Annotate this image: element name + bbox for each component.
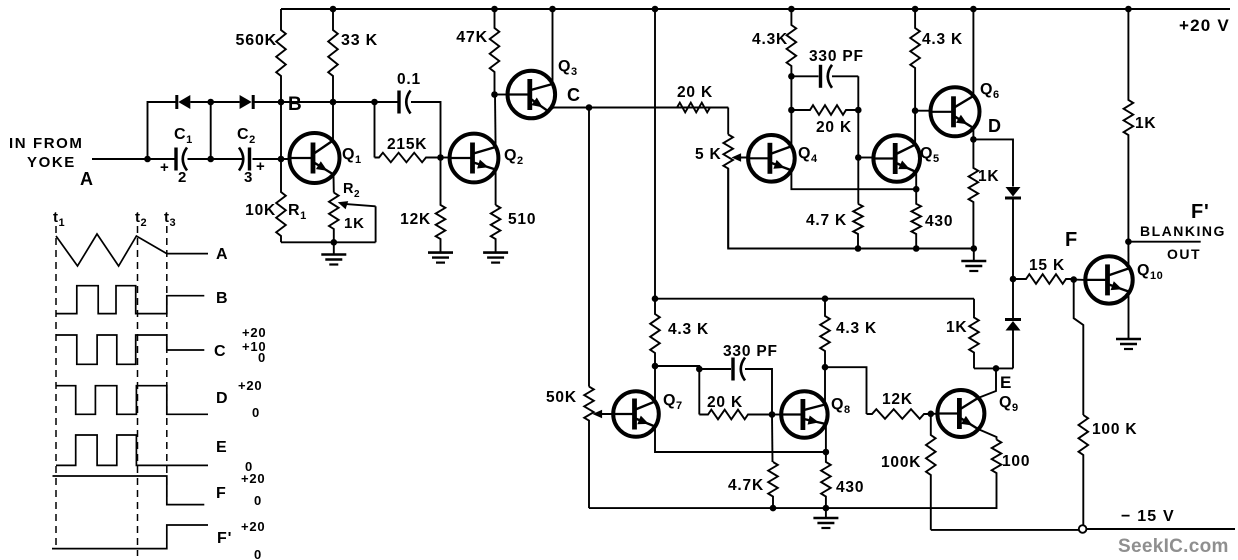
node junction Q3 base [491,91,498,98]
wire Q10 base [1074,279,1086,281]
waveform E [56,435,208,465]
wire Q6 base [915,110,931,112]
transistor Q3 [508,71,556,119]
diode CR4 (up) [1006,321,1021,331]
svg-text:0: 0 [258,350,266,365]
svg-text:B: B [216,290,228,307]
node junction 33K bottom [330,99,337,106]
wire long vertical from top rail [654,9,656,299]
resistor 100 ohm [992,440,1002,475]
svg-text:2: 2 [178,169,187,186]
wire C1 to C2 [188,158,243,160]
capacitor C2 [248,148,251,171]
svg-text:+20: +20 [241,519,265,534]
svg-text:215K: 215K [387,136,427,153]
transistor Q9 [937,390,984,437]
svg-text:47K: 47K [456,29,488,46]
svg-text:SeekIC.com: SeekIC.com [1118,536,1229,557]
waveform C [56,335,204,364]
wire mid riser [210,102,212,159]
transistor Q10 [1085,256,1132,303]
capacitor 330PF upper [819,65,822,88]
potentiometer 50K wiper arrow [597,413,613,415]
diode CR3 (down) [1006,187,1021,197]
wire Q5 base to 4.7K [857,158,859,204]
svg-text:C: C [567,85,581,105]
svg-text:− 15 V: − 15 V [1121,508,1175,525]
wire diode to node B [253,101,281,103]
wire Q7 emitter row [655,427,826,453]
node junction R2 bottom [331,239,338,246]
wire +20V top supply rail [281,8,1230,10]
wire Q8 base to 4.7K [771,415,774,463]
svg-text:+: + [160,159,170,176]
potentiometer 50K element [584,387,594,509]
node junction Q2 base [437,154,444,161]
svg-text:330 PF: 330 PF [723,343,778,360]
svg-text:430: 430 [925,213,953,230]
svg-text:1K: 1K [946,319,967,336]
wire Q3 collector [552,9,554,84]
wire Q1 collector [332,102,334,141]
wire Q6 emitter to D [972,128,974,139]
node junction 33K top [330,6,337,13]
wire Q6 collector [972,9,974,96]
svg-text:A: A [216,246,228,263]
capacitor C1 [174,148,177,171]
node junction 20K right [855,107,862,114]
svg-text:33 K: 33 K [341,32,378,49]
resistor 1K below D [969,139,979,248]
svg-text:15 K: 15 K [1029,257,1065,274]
wire Q8 emitter [825,424,827,452]
resistor 1K lower right [969,299,979,369]
node junction 1K Q10 top [1125,6,1132,13]
node junction lower rail Q8 [822,295,829,302]
wire C down to 50K [588,108,590,387]
node junction Q7 collector [652,363,659,370]
svg-text:C: C [214,343,226,360]
wire 20K lower left riser [698,369,700,415]
svg-text:0: 0 [254,547,262,560]
ground below 12K [440,252,442,254]
svg-text:10K: 10K [245,202,276,219]
transistor Q1 [290,133,340,183]
resistor 15K [1013,274,1074,284]
wire coupling right column [857,76,859,157]
svg-text:3: 3 [244,169,253,186]
svg-text:20 K: 20 K [677,84,713,101]
svg-text:510: 510 [508,211,536,228]
svg-text:4.3 K: 4.3 K [836,320,877,337]
svg-text:B: B [288,94,303,115]
svg-text:4.7K: 4.7K [728,477,764,494]
resistor 4.3K Q5 [910,9,920,111]
resistor 4.3K Q8 [820,299,830,368]
wire 100K Q9 to -15V [931,529,1079,531]
node junction Q8 base [769,411,776,418]
wire C2 to Q1 base [253,158,290,160]
svg-text:BLANKING: BLANKING [1140,223,1226,239]
resistor 430 upper [911,189,921,248]
transistor Q7 [613,391,659,437]
wire D to diode column [973,139,1013,186]
node junction 430 bottom rail [823,505,830,512]
svg-text:F: F [1065,229,1078,251]
svg-text:+20: +20 [242,325,266,340]
node C [586,104,593,111]
resistor 4.7K lower [768,462,778,508]
wire down to 215K [374,102,376,158]
svg-text:5 K: 5 K [695,146,722,163]
resistor 4.3K Q4 [787,9,797,76]
potentiometer 5K element [723,135,733,249]
transistor Q4 [748,135,795,182]
transistor Q5 [873,135,920,182]
wire Q4 collector riser [790,76,792,146]
resistor 12K [436,158,446,253]
wire input from yoke [92,158,176,160]
svg-text:+20: +20 [241,471,265,486]
waveform B [56,286,204,314]
resistor 430 lower [821,452,831,508]
wire Q9 emitter to 100 [978,429,997,440]
node junction x655 top [652,6,659,13]
wire Q3 emitter to C [548,108,728,112]
resistor 12K lower [867,409,931,419]
wire diode-loop left riser [148,102,177,159]
svg-text:F: F [216,485,227,502]
wire to 330PF upper [791,75,818,77]
svg-text:+20: +20 [238,378,262,393]
svg-text:0: 0 [254,493,262,508]
svg-text:330 PF: 330 PF [809,48,864,65]
wire 330PF lower right [745,369,772,415]
svg-text:12K: 12K [400,211,431,228]
wire Q1 emitter [333,175,335,193]
node junction 4.3K Q5 top [912,6,919,13]
waveform F prime [52,525,208,549]
wire node B row [281,101,375,103]
capacitor 330PF lower [731,358,734,381]
wire B to base junction [280,102,282,159]
resistor 4.7K upper [853,204,863,249]
node junction Q1 base [278,156,285,163]
wire diode CR4 to F [1012,279,1014,320]
node junction 47K top [491,6,498,13]
node junction Q6 collector top [970,6,977,13]
svg-text:YOKE: YOKE [27,154,76,171]
wire bottom rail [589,475,997,508]
wire Q8 collector riser [824,367,826,404]
terminal -15V open circle [1079,525,1087,533]
svg-text:1K: 1K [978,168,999,185]
svg-text:0.1: 0.1 [397,71,421,88]
wire between diodes [190,101,239,103]
ground upper section [973,249,975,262]
node junction blanking [1125,238,1132,245]
waveform A sawtooth [56,234,208,266]
svg-text:F': F' [1191,201,1210,223]
waveform D [56,386,208,415]
svg-text:0: 0 [252,405,260,420]
ground below Q1 stage [333,242,335,254]
wire Q5 base [858,157,874,159]
resistor 20K horizontal [589,103,728,113]
wire -15V rail [1087,528,1236,530]
ground below Q10 [1128,338,1130,340]
potentiometer R2 wiper box [375,206,377,242]
wire Q7 collector riser [654,366,656,402]
wire 20K down to 5K [727,108,729,135]
resistor 510 [491,205,501,253]
svg-text:+20 V: +20 V [1179,16,1230,35]
resistor 20K lower [699,410,772,420]
resistor 4.3K Q7 [650,299,660,366]
resistor 560K [276,9,286,102]
ground lower section [825,508,827,518]
dashed timing line t3 [166,226,168,505]
node junction diode loop left [144,156,151,163]
svg-text:+: + [256,158,266,175]
resistor 20K Q4-Q5 [791,105,858,115]
node junction Q10 base [1070,276,1077,283]
potentiometer 5K wiper arrow [736,157,748,159]
node junction Q9 base [928,411,935,418]
potentiometer R2 1K element [329,193,339,243]
ground below 510 [495,252,497,254]
wire to cap 0.1 [375,101,398,103]
wire Q3 base [495,94,509,96]
svg-text:D: D [216,390,228,407]
node D [970,136,977,143]
svg-text:4.7 K: 4.7 K [806,212,847,229]
wire Q2 base [441,157,451,159]
svg-text:4.3K: 4.3K [752,31,788,48]
svg-text:F': F' [217,530,232,547]
waveform F [53,476,205,505]
svg-text:E: E [216,439,227,456]
node F junction [1010,276,1017,283]
svg-text:560K: 560K [236,32,277,49]
node junction Q3 collector top [549,6,556,13]
wire diode CR4 column [1012,331,1014,369]
resistor 100K right [1079,415,1089,525]
resistor 100K Q9 [926,414,936,530]
node junction mid-rail right end [971,245,978,252]
wire cap 0.1 right [411,102,441,158]
node B [278,99,285,106]
resistor R1 10K [276,159,286,242]
wire blanking out [1128,241,1200,243]
node junction Q5 emitter [913,186,920,193]
wire Q5 emitter [915,172,917,189]
wire 330PF lower left [699,368,731,370]
wire Q10 collector [1127,242,1129,269]
svg-text:100: 100 [1002,453,1030,470]
svg-text:4.3 K: 4.3 K [922,31,963,48]
node junction 430 bottom [913,245,920,252]
node junction Q8 collector [822,364,829,371]
svg-text:430: 430 [836,479,864,496]
node junction 20K left [788,107,795,114]
svg-text:1K: 1K [344,215,365,232]
node junction B-row right [371,99,378,106]
svg-text:4.3 K: 4.3 K [668,321,709,338]
svg-text:A: A [80,169,94,189]
svg-text:100K: 100K [881,454,921,471]
wire node row to 330PF lower [655,366,699,369]
transistor Q6 [931,87,980,136]
node junction diode mid [207,99,214,106]
wire Q10 emitter [1128,292,1130,340]
node junction Q5 base [855,154,862,161]
dashed timing line t2 [137,226,139,556]
svg-text:20 K: 20 K [707,394,743,411]
svg-text:1K: 1K [1135,115,1156,132]
resistor 1K Q10 [1124,9,1134,242]
svg-text:50K: 50K [546,389,577,406]
wire lower section top rail [655,298,974,300]
diode CR2 (right, pointing right) [240,95,252,109]
node junction Q4 collector [788,73,795,80]
svg-text:E: E [1000,373,1012,392]
wire Q5 collector [914,111,916,145]
wire Q10 bias jog [1074,280,1084,415]
wire Q2 emitter [495,170,497,206]
wire diode CR3 to F [1012,198,1014,279]
node junction lower rail left [652,295,659,302]
capacitor 0.1 [397,91,400,114]
svg-text:D: D [988,116,1002,136]
node junction 4.3K Q4 top [788,6,795,13]
transistor Q8 [781,391,827,437]
node junction mid [207,156,214,163]
potentiometer R2 wiper arrow [343,204,376,207]
node junction 4.7K bottom [855,245,862,252]
resistor 33K [328,9,338,102]
wire Q8 collector to 12K [825,367,867,414]
svg-text:OUT: OUT [1167,246,1201,262]
node junction 330PF lower left [696,366,703,373]
wire 330PF right [832,75,858,77]
svg-text:IN FROM: IN FROM [9,135,84,152]
wire Q8 base [772,414,782,416]
wire Q1 bottom row [281,241,376,243]
dashed timing line t1 [55,226,57,549]
svg-text:20 K: 20 K [816,119,852,136]
wire Q2 collector [494,95,497,148]
wire Q9 collector to E [978,368,996,398]
wire E row [974,367,1013,369]
node junction 4.7K bottom rail [770,505,777,512]
node junction Q6 base [912,107,919,114]
wire Q9 base [931,413,938,415]
transistor Q2 [450,134,499,183]
node E [993,365,1000,372]
diode CR1 (left, pointing left) [178,95,190,109]
node junction Q8 emitter [823,449,830,456]
resistor 47K [490,9,500,95]
wire Q4 emitter row [791,170,916,189]
svg-text:100 K: 100 K [1092,421,1137,438]
resistor 215K [375,153,441,163]
svg-text:12K: 12K [882,391,913,408]
wire 5K bottom to mid rail [728,169,974,249]
